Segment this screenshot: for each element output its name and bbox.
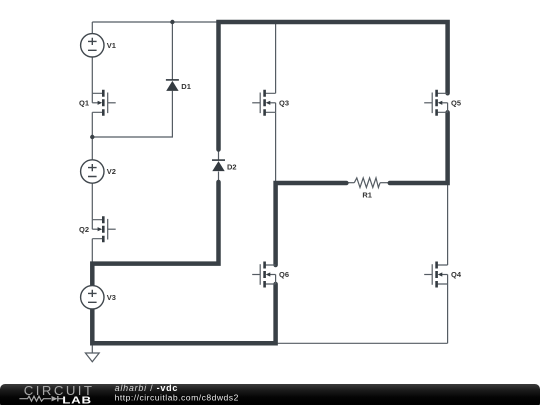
logo diode	[52, 396, 58, 401]
svg-text:D1: D1	[181, 82, 191, 91]
transistor Q2	[79, 216, 116, 242]
wire V2 bottom to Q2 drain	[91, 183, 93, 220]
wire Q2 source to thick corner	[91, 239, 93, 264]
transistor Q4	[424, 262, 462, 288]
svg-text:V1: V1	[107, 41, 116, 50]
svg-text:D2: D2	[227, 163, 237, 172]
wire R1 left thin lead	[346, 182, 354, 184]
wire thick R1 left to Q6 drain	[276, 183, 347, 265]
wire bottom right rail thin	[276, 342, 448, 344]
transistor Q3	[252, 90, 289, 116]
svg-text:Q4: Q4	[451, 270, 462, 279]
svg-text:Q2: Q2	[79, 225, 89, 234]
wire D2 top thin lead	[218, 150, 220, 161]
svg-text:V3: V3	[107, 293, 116, 302]
wire top rail thin from V1 to thick corner	[92, 21, 218, 23]
svg-text:Q3: Q3	[279, 98, 289, 107]
wire D2 bottom thin lead	[218, 172, 220, 183]
svg-text:V2: V2	[107, 167, 116, 176]
diode D1	[166, 80, 191, 91]
wire V1 bottom to Q1 drain	[91, 57, 93, 93]
wire thick V3 top to middle rail to D2 bottom	[92, 182, 218, 286]
wire thick top rail and down to Q5 drain and down to D2	[219, 22, 448, 150]
wire thick Q5 source to R1 right	[390, 112, 448, 183]
ground	[85, 353, 99, 362]
svg-text:http://circuitlab.com/c8dwds2: http://circuitlab.com/c8dwds2	[115, 392, 239, 402]
wire ground stub	[91, 343, 93, 353]
transistor Q6	[252, 262, 289, 288]
wire thick Q6 source to bottom rail to V3 bottom	[92, 284, 275, 343]
transistor Q1	[79, 90, 116, 116]
resistor R1	[354, 178, 380, 200]
wire top rail to Q3 drain	[275, 22, 277, 93]
node junction dot at Q1 source and D1 return	[90, 135, 94, 139]
logo squiggle wire	[19, 396, 51, 401]
diode D2	[212, 160, 237, 171]
voltage source V3	[81, 286, 116, 309]
svg-text:R1: R1	[362, 191, 372, 200]
wire D1 branch bottom	[92, 91, 172, 137]
svg-text:LAB: LAB	[62, 395, 91, 405]
wire D1 branch top	[171, 22, 173, 80]
wire Q4 source down	[447, 284, 449, 343]
wire Q1 source to V2 top	[91, 112, 93, 160]
node junction dot at top rail and D1	[170, 20, 174, 24]
transistor Q5	[424, 90, 461, 116]
wire V1 top stub	[91, 22, 93, 34]
svg-text:Q6: Q6	[279, 270, 289, 279]
wire R1 right thin lead	[380, 182, 390, 184]
voltage source V1	[81, 34, 116, 57]
voltage source V2	[81, 160, 116, 183]
footer bar	[0, 384, 540, 405]
wire R1 rail to Q4 drain	[447, 183, 449, 265]
svg-text:Q5: Q5	[451, 98, 461, 107]
wire Q3 source to R1 rail	[275, 112, 277, 183]
svg-text:Q1: Q1	[79, 98, 89, 107]
